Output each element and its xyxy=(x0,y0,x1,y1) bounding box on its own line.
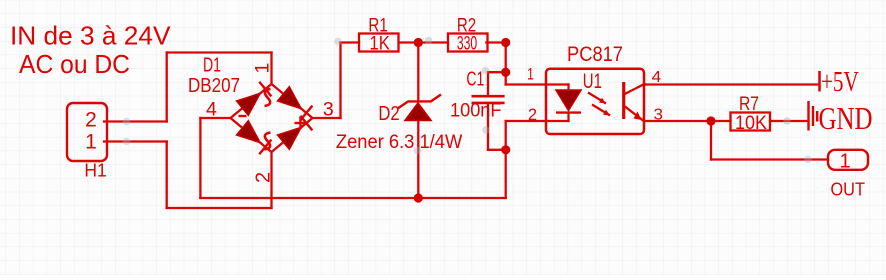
svg-text:1: 1 xyxy=(839,151,850,173)
svg-text:100nF: 100nF xyxy=(450,99,502,121)
svg-text:4: 4 xyxy=(652,69,662,86)
svg-text:2: 2 xyxy=(528,105,537,124)
svg-text:OUT: OUT xyxy=(831,178,865,199)
svg-text:2: 2 xyxy=(253,172,275,183)
svg-text:C1: C1 xyxy=(466,68,484,90)
svg-text:DB207: DB207 xyxy=(188,75,240,97)
svg-text:1: 1 xyxy=(85,131,97,154)
svg-text:D2: D2 xyxy=(378,103,399,125)
svg-text:H1: H1 xyxy=(84,160,106,180)
svg-text:1: 1 xyxy=(252,63,274,74)
svg-text:+5V: +5V xyxy=(821,67,859,98)
svg-text:D1: D1 xyxy=(203,54,221,76)
svg-text:3: 3 xyxy=(654,107,664,124)
svg-text:GND: GND xyxy=(819,100,873,136)
svg-text:1K: 1K xyxy=(370,33,390,55)
svg-text:10K: 10K xyxy=(735,112,767,134)
svg-text:2: 2 xyxy=(85,108,97,131)
svg-text:Zener 6.3 1/4W: Zener 6.3 1/4W xyxy=(336,131,463,153)
svg-text:4: 4 xyxy=(206,99,217,121)
svg-text:IN de 3 à 24V: IN de 3 à 24V xyxy=(10,20,171,50)
svg-text:U1: U1 xyxy=(583,70,602,93)
svg-text:3: 3 xyxy=(323,99,334,121)
svg-text:AC ou DC: AC ou DC xyxy=(19,49,130,79)
svg-text:330: 330 xyxy=(457,33,477,55)
svg-text:1: 1 xyxy=(527,64,534,83)
svg-text:PC817: PC817 xyxy=(567,43,623,66)
